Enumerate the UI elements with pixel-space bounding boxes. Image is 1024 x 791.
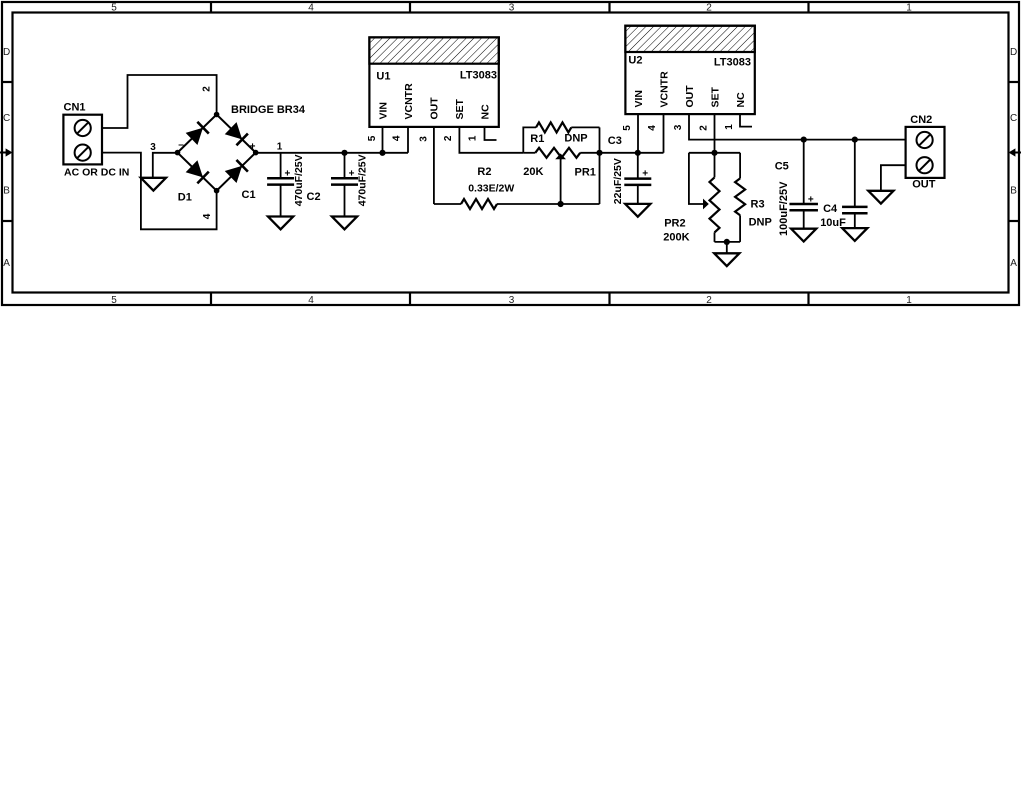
svg-text:R3: R3 <box>751 199 765 211</box>
svg-text:AC OR DC IN: AC OR DC IN <box>64 166 129 178</box>
svg-text:CN1: CN1 <box>64 102 86 114</box>
U2 pin 2 SET stub <box>714 114 716 153</box>
svg-text:+: + <box>642 169 648 180</box>
regulator U1 body <box>369 37 498 127</box>
svg-text:1: 1 <box>724 124 735 130</box>
svg-text:1: 1 <box>906 295 912 306</box>
svg-text:3: 3 <box>509 295 515 306</box>
ground at C2 <box>332 217 357 230</box>
junction top vertex <box>214 112 220 118</box>
U2 pin 4 stub <box>663 114 665 153</box>
svg-text:C: C <box>3 113 10 124</box>
diode D1a (left vertex to top) <box>186 122 209 145</box>
ground at C4 <box>842 228 867 241</box>
svg-text:CN2: CN2 <box>910 114 932 126</box>
svg-text:C2: C2 <box>307 191 321 203</box>
svg-text:–: – <box>178 139 184 150</box>
junction C2 <box>341 150 347 156</box>
svg-text:3: 3 <box>673 124 684 130</box>
svg-text:2: 2 <box>706 2 712 13</box>
svg-text:SET: SET <box>709 86 721 107</box>
U2 pin 5 stub <box>637 114 639 153</box>
ground at C3 <box>625 204 650 217</box>
capacitor C5 <box>803 140 805 204</box>
svg-text:3: 3 <box>419 136 430 142</box>
ground at bridge pin 3 <box>141 178 166 191</box>
svg-text:C1: C1 <box>242 189 256 201</box>
U1 pin 5 stub <box>382 127 384 153</box>
svg-text:D: D <box>3 47 10 58</box>
svg-text:LT3083: LT3083 <box>460 70 497 82</box>
resistor R3 <box>739 153 741 179</box>
svg-text:PR2: PR2 <box>664 218 685 230</box>
svg-text:+: + <box>349 168 355 179</box>
wire OUT rail with resistor R2 <box>434 203 461 205</box>
svg-text:5: 5 <box>111 2 117 13</box>
svg-text:200K: 200K <box>663 232 689 244</box>
junction C5 <box>801 137 807 143</box>
svg-text:R2: R2 <box>477 166 491 178</box>
wire node 1 rail to U1 VIN/VCNTR <box>256 152 408 154</box>
ground below PR2/R3 <box>714 253 739 266</box>
svg-text:C4: C4 <box>823 203 838 215</box>
svg-text:10uF: 10uF <box>820 217 846 229</box>
connector CN2 <box>906 127 945 178</box>
svg-text:B: B <box>3 186 10 197</box>
svg-text:2: 2 <box>698 125 709 131</box>
svg-text:5: 5 <box>622 125 633 131</box>
svg-text:OUT: OUT <box>912 179 936 191</box>
regulator U2 body <box>625 26 754 114</box>
trimmer PR1 body <box>523 152 535 154</box>
svg-text:20K: 20K <box>523 166 543 178</box>
svg-text:LT3083: LT3083 <box>714 57 751 69</box>
U1 pin 3 OUT stub <box>433 127 435 204</box>
junction left vertex <box>175 150 181 156</box>
svg-text:VIN: VIN <box>633 90 645 108</box>
wire CN1 top terminal to bridge pin 2 <box>102 75 217 128</box>
svg-text:U1: U1 <box>376 70 390 82</box>
wire CN2 bottom terminal to ground <box>881 165 906 191</box>
junction U2 VIN <box>635 150 641 156</box>
svg-text:3: 3 <box>509 2 515 13</box>
junction right vertex <box>253 150 259 156</box>
junction node C3 <box>596 150 602 156</box>
bridge rectifier D1 body <box>178 115 256 191</box>
svg-text:0.33E/2W: 0.33E/2W <box>468 183 514 195</box>
svg-text:3: 3 <box>150 142 156 153</box>
svg-text:1: 1 <box>468 135 479 141</box>
ground at C5 <box>791 229 816 242</box>
ground at C1 <box>268 217 293 230</box>
U2 pin 1 NC stub <box>740 114 752 127</box>
connector CN1 <box>63 115 102 165</box>
svg-text:4: 4 <box>647 125 658 131</box>
svg-text:D: D <box>1010 47 1017 58</box>
svg-text:NC: NC <box>479 104 491 120</box>
svg-text:4: 4 <box>308 2 314 13</box>
svg-text:D1: D1 <box>178 191 192 203</box>
svg-text:A: A <box>1010 258 1017 269</box>
svg-text:NC: NC <box>735 92 747 108</box>
svg-text:C: C <box>1010 113 1017 124</box>
svg-text:5: 5 <box>367 135 378 141</box>
svg-text:DNP: DNP <box>564 132 587 144</box>
svg-text:A: A <box>3 258 10 269</box>
svg-text:470uF/25V: 470uF/25V <box>293 154 305 206</box>
wire PR2/R3 bottom <box>715 241 741 243</box>
svg-text:4: 4 <box>392 135 403 141</box>
svg-text:VIN: VIN <box>377 102 389 120</box>
capacitor C1 <box>280 153 282 179</box>
wire C3 node down to R2 rail <box>599 153 601 204</box>
svg-text:DNP: DNP <box>749 217 772 229</box>
svg-text:B: B <box>1010 186 1017 197</box>
svg-text:BRIDGE BR34: BRIDGE BR34 <box>231 104 306 116</box>
svg-text:5: 5 <box>111 295 117 306</box>
svg-text:VCNTR: VCNTR <box>403 83 415 120</box>
diode D1c (left vertex to bottom) <box>186 161 209 184</box>
U1 pin 2 SET wire <box>459 127 523 153</box>
U2 pin 3 OUT wire <box>689 114 906 140</box>
U1 pin 1 NC stub <box>485 127 497 140</box>
svg-text:PR1: PR1 <box>575 167 596 179</box>
svg-text:VCNTR: VCNTR <box>658 71 670 108</box>
ground at CN2 <box>868 191 893 204</box>
junction PR1 wiper to R2 rail <box>558 201 564 207</box>
svg-text:+: + <box>284 168 290 179</box>
wire to U1 VCNTR <box>407 127 409 153</box>
svg-text:+: + <box>250 141 256 152</box>
svg-text:470uF/25V: 470uF/25V <box>357 154 369 206</box>
svg-text:2: 2 <box>706 295 712 306</box>
wire PR2/R3 top <box>689 152 740 154</box>
svg-text:100uF/25V: 100uF/25V <box>778 181 790 236</box>
trimmer PR2 body <box>714 153 716 178</box>
svg-text:+: + <box>808 194 814 205</box>
wire R1 top branch <box>523 127 536 152</box>
svg-text:OUT: OUT <box>684 85 696 108</box>
wire C3 node to U2 VIN/VCNTR <box>600 152 664 154</box>
junction U2 SET node <box>711 150 717 156</box>
wire CN1 bottom terminal to bridge pin 4 <box>102 153 217 230</box>
svg-text:4: 4 <box>308 295 314 306</box>
wire to ground stem <box>726 242 728 253</box>
diode D1d (bottom to right vertex) <box>225 160 248 183</box>
svg-text:2: 2 <box>443 135 454 141</box>
capacitor C3 <box>637 153 639 179</box>
wire bridge pin 3 to ground <box>153 153 178 178</box>
capacitor C4 <box>854 140 856 207</box>
capacitor C2 <box>344 153 346 179</box>
junction U1 VIN <box>379 150 385 156</box>
svg-text:2: 2 <box>202 86 213 92</box>
svg-text:22uF/25V: 22uF/25V <box>612 158 624 204</box>
junction bottom vertex <box>214 188 220 194</box>
svg-text:1: 1 <box>277 142 283 153</box>
svg-text:SET: SET <box>454 98 466 119</box>
trimmer PR1 wiper <box>560 159 562 205</box>
svg-text:C3: C3 <box>608 135 622 147</box>
svg-text:4: 4 <box>202 213 213 219</box>
diode D1b (top to right vertex) <box>225 123 248 146</box>
trimmer PR2 wiper <box>689 153 704 204</box>
junction C4 <box>852 137 858 143</box>
svg-text:U2: U2 <box>628 55 642 67</box>
junction PR2/R3 bottom <box>724 239 730 245</box>
svg-text:1: 1 <box>906 2 912 13</box>
svg-text:OUT: OUT <box>429 97 441 120</box>
svg-text:C5: C5 <box>775 160 789 172</box>
svg-text:R1: R1 <box>530 133 544 145</box>
